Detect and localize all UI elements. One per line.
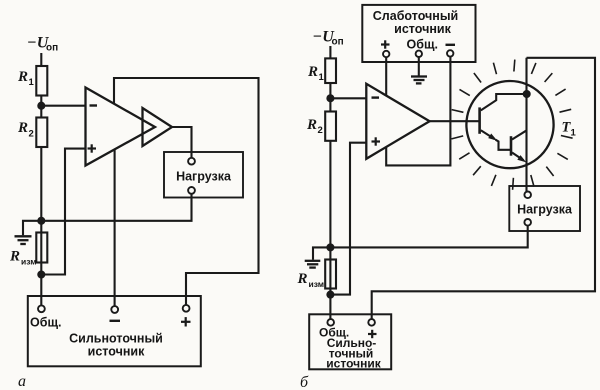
strong source terminal plus (right): [368, 319, 375, 326]
op-amp U2 triangle: [366, 84, 429, 159]
source box (left): [28, 296, 201, 366]
transistor Q1 collector: [481, 94, 527, 110]
weak source terminal minus: [447, 50, 453, 56]
svg-text:R: R: [297, 271, 308, 287]
load box (right): [509, 186, 580, 231]
resistor R1 (left): [36, 66, 47, 96]
transistor Q2 emitter: [512, 153, 524, 161]
load top terminal (right): [524, 192, 531, 199]
strong source text (right): [326, 336, 381, 371]
wire from -Uop to R1 (right): [329, 46, 331, 58]
svg-text:Сильноточный: Сильноточный: [69, 332, 163, 346]
label plus (strong source right): [368, 333, 377, 335]
resistor R2 (left): [36, 118, 47, 148]
weak source terminal Obsh: [416, 51, 422, 57]
load label (right): [517, 203, 573, 217]
weak source box: [362, 5, 475, 62]
ground (weak source): [418, 57, 420, 76]
svg-text:2: 2: [29, 129, 34, 140]
op-amp U2 minus sign: [372, 96, 380, 98]
op-amp U1 big triangle: [86, 88, 156, 166]
transistor Q2 collector: [512, 130, 527, 139]
node junction R1/R2: [38, 103, 44, 109]
svg-text:изм: изм: [21, 257, 37, 267]
label b: [300, 374, 309, 390]
wire from -Uop to R1: [40, 53, 42, 66]
svg-text:изм: изм: [309, 279, 325, 289]
label Obsh (strong source right): [319, 326, 349, 340]
wire op-amp output to transistor base: [430, 120, 480, 122]
svg-text:источник: источник: [326, 357, 381, 371]
label T1: [562, 120, 577, 139]
node -Uop label (right): [313, 29, 344, 48]
wire non-inverting input feedback (right): [330, 143, 366, 295]
ground (right): [313, 247, 330, 259]
wire R1 to R2 (right): [329, 83, 331, 112]
strong source box (right): [309, 314, 391, 369]
source terminal plus (left): [183, 305, 190, 312]
node collector junction: [524, 91, 530, 97]
transistor Q1 base bar: [478, 107, 481, 133]
svg-text:R: R: [17, 120, 28, 136]
svg-text:оп: оп: [46, 43, 58, 54]
svg-text:Нагрузка: Нагрузка: [176, 170, 232, 184]
load bottom terminal (right): [524, 219, 531, 226]
weak source box text: [373, 9, 458, 36]
op-amp U1 output stage triangle: [143, 108, 173, 146]
node junction below Rizm (right): [327, 292, 333, 298]
label minus terminal (weak source): [446, 44, 456, 46]
wire top feed to strong source plus: [372, 58, 595, 319]
svg-text:1: 1: [29, 77, 35, 88]
svg-text:источник: источник: [394, 22, 451, 36]
transistor Q1 emitter: [481, 130, 495, 139]
wire op-amp bottom supply pin: [114, 149, 116, 306]
load top terminal: [188, 158, 195, 165]
svg-text:источник: источник: [88, 345, 145, 359]
wire op-amp output to load: [172, 127, 192, 158]
transistor Q2 base bar: [510, 136, 513, 156]
transistor T1 circle: [466, 81, 553, 168]
svg-text:R: R: [307, 64, 318, 80]
load box (left): [164, 152, 243, 198]
svg-text:Нагрузка: Нагрузка: [517, 203, 573, 217]
label plus terminal (left): [181, 321, 191, 323]
node junction below Rizm: [38, 272, 44, 278]
svg-text:Общ.: Общ.: [30, 316, 61, 330]
resistor R2 (right): [325, 112, 336, 141]
op-amp plus input sign: [88, 147, 97, 149]
wire op-amp top supply pin: [114, 78, 259, 306]
label a: [18, 373, 26, 390]
resistor Rizm (right): [325, 260, 336, 289]
wire divider chain down: [40, 147, 42, 306]
strong source terminal Obsh (right): [327, 319, 334, 326]
wire plus supply pin: [385, 57, 387, 96]
svg-text:1: 1: [571, 128, 577, 139]
label Obsh (weak source): [407, 38, 438, 52]
label minus terminal (left): [110, 320, 121, 322]
wire inverting input: [41, 105, 85, 107]
svg-text:R: R: [306, 117, 317, 133]
wire R1 to R2: [40, 96, 42, 118]
svg-text:оп: оп: [332, 37, 344, 48]
wire inverting input (right): [330, 97, 366, 99]
node junction at ground: [38, 218, 44, 224]
source box text (left): [69, 332, 163, 359]
label plus terminal (weak source): [381, 43, 390, 45]
svg-text:2: 2: [318, 125, 323, 136]
node -Uop label (left): [27, 35, 58, 54]
node junction R1/R2 (right): [327, 95, 333, 101]
svg-text:а: а: [18, 373, 26, 390]
svg-text:б: б: [300, 374, 309, 390]
svg-text:R: R: [17, 69, 28, 85]
svg-text:1: 1: [319, 72, 325, 83]
wire minus supply pin: [386, 57, 450, 166]
svg-text:R: R: [9, 249, 20, 265]
load label (left): [176, 170, 232, 184]
source terminal Obsh (left): [38, 305, 45, 312]
op-amp U2 plus sign: [372, 140, 381, 142]
wire load bottom return (right): [330, 226, 527, 248]
wire non-inverting input feedback: [41, 149, 85, 275]
svg-text:Общ.: Общ.: [407, 38, 438, 52]
label Obsh (left): [30, 316, 61, 330]
transistor highlight rays: [452, 60, 573, 190]
weak source terminal plus: [383, 51, 389, 57]
ground (left): [23, 221, 41, 236]
op-amp minus input sign: [90, 104, 98, 106]
node junction at ground (right): [327, 244, 333, 250]
load bottom terminal: [188, 187, 195, 194]
resistor R1 (right): [325, 58, 336, 83]
wire main collector-emitter vertical: [525, 58, 527, 192]
wire divider chain down (right): [329, 141, 331, 319]
wire load bottom return: [41, 194, 191, 221]
resistor Rizm (left): [36, 233, 47, 263]
wire Q1 emitter to Q2 base: [496, 140, 511, 150]
source terminal minus (left): [111, 306, 118, 313]
